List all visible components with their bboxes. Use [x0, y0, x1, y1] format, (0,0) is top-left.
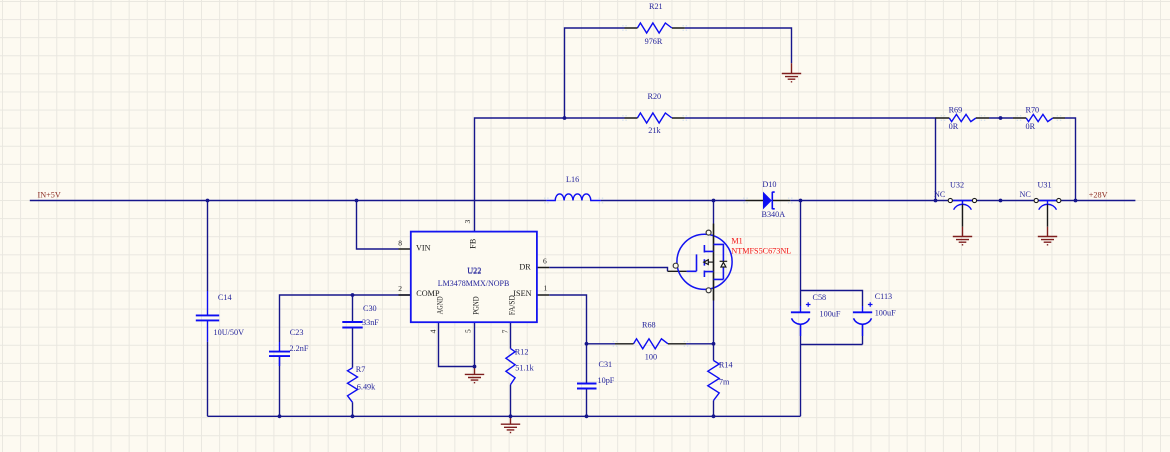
- svg-text:PGND: PGND: [471, 296, 480, 314]
- svg-text:L16: L16: [566, 175, 579, 184]
- svg-text:NC: NC: [934, 190, 946, 199]
- svg-text:8: 8: [398, 238, 402, 247]
- svg-text:5: 5: [464, 329, 473, 333]
- svg-text:21k: 21k: [648, 126, 661, 135]
- svg-text:1: 1: [544, 284, 548, 293]
- svg-text:33nF: 33nF: [362, 318, 379, 327]
- svg-text:R7: R7: [356, 365, 366, 374]
- svg-text:R70: R70: [1026, 106, 1040, 115]
- svg-text:+28V: +28V: [1089, 191, 1108, 200]
- svg-text:976R: 976R: [645, 37, 663, 46]
- svg-text:C30: C30: [363, 304, 377, 313]
- svg-text:C31: C31: [599, 360, 613, 369]
- svg-text:4: 4: [429, 329, 438, 333]
- svg-text:IN+5V: IN+5V: [38, 191, 61, 200]
- svg-text:U31: U31: [1038, 181, 1052, 190]
- svg-text:R68: R68: [642, 321, 656, 330]
- svg-text:R20: R20: [648, 92, 662, 101]
- svg-text:10U/50V: 10U/50V: [214, 328, 245, 337]
- svg-text:C23: C23: [290, 328, 304, 337]
- svg-text:FA/SD: FA/SD: [507, 295, 516, 315]
- svg-text:NTMFS5C673NL: NTMFS5C673NL: [731, 247, 791, 256]
- svg-text:R69: R69: [949, 106, 963, 115]
- svg-text:R21: R21: [649, 2, 663, 11]
- svg-text:2: 2: [398, 284, 402, 293]
- svg-text:51.1k: 51.1k: [515, 364, 534, 373]
- svg-text:3: 3: [463, 220, 472, 224]
- svg-text:VIN: VIN: [416, 243, 431, 252]
- svg-text:10pF: 10pF: [598, 376, 615, 385]
- svg-text:6: 6: [543, 257, 547, 266]
- svg-text:D10: D10: [762, 180, 776, 189]
- svg-text:R14: R14: [719, 361, 733, 370]
- svg-text:0R: 0R: [949, 122, 959, 131]
- svg-text:6.49k: 6.49k: [357, 383, 376, 392]
- svg-text:B340A: B340A: [762, 210, 786, 219]
- svg-text:M1: M1: [731, 237, 742, 246]
- svg-text:NC: NC: [1020, 190, 1032, 199]
- svg-text:C113: C113: [875, 292, 892, 301]
- svg-text:DR: DR: [519, 263, 531, 272]
- svg-text:7: 7: [500, 329, 509, 333]
- svg-text:U22: U22: [467, 267, 481, 276]
- svg-text:7m: 7m: [719, 377, 730, 386]
- svg-text:2.2nF: 2.2nF: [290, 344, 309, 353]
- svg-text:FB: FB: [469, 238, 478, 249]
- svg-text:0R: 0R: [1026, 122, 1036, 131]
- svg-text:100: 100: [645, 353, 657, 362]
- svg-text:C58: C58: [813, 293, 827, 302]
- svg-text:100uF: 100uF: [820, 310, 841, 319]
- svg-text:R12: R12: [515, 347, 529, 356]
- svg-text:100uF: 100uF: [875, 309, 896, 318]
- svg-text:AGND: AGND: [436, 296, 445, 314]
- svg-text:U32: U32: [950, 181, 964, 190]
- svg-text:C14: C14: [218, 293, 232, 302]
- svg-text:LM3478MMX/NOPB: LM3478MMX/NOPB: [438, 279, 510, 288]
